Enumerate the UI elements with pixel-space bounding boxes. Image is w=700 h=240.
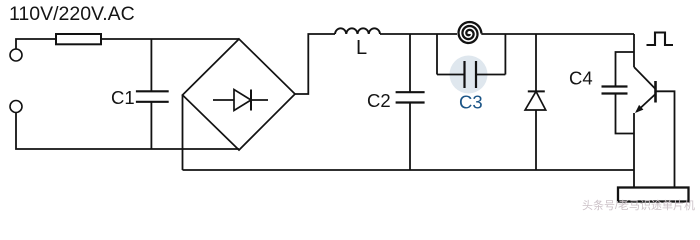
spiral inductor (saturable coil) on top rail: [459, 22, 482, 43]
capacitor C3 plates: [463, 61, 465, 88]
C3 right connector: [476, 74, 505, 76]
wire bottom DC rail: [183, 169, 635, 171]
capacitor C2 bottom lead: [409, 103, 411, 171]
capacitor C4 top tee wire: [616, 52, 635, 87]
diode D1 cathode bar: [528, 90, 545, 92]
transistor Q1 base lead: [656, 91, 675, 187]
wire inductor to spiral: [380, 33, 457, 35]
svg-text:头条号/老马识途单片机: 头条号/老马识途单片机: [582, 198, 695, 212]
inductor L1: [335, 28, 380, 34]
capacitor C2 plates: [396, 91, 425, 93]
C3 right stub: [504, 34, 506, 75]
diode D1 bottom lead: [535, 110, 537, 170]
wire DC minus: bridge left vertex down: [182, 95, 184, 171]
bridge rectifier BR1 (diamond): [183, 39, 296, 150]
diode D1 triangle: [525, 91, 546, 110]
fuse F1 (rectangle): [56, 34, 101, 44]
svg-text:C2: C2: [367, 90, 391, 111]
capacitor C1 plates: [136, 90, 169, 92]
svg-text:L: L: [356, 37, 367, 59]
C3 left stub: [436, 34, 438, 75]
capacitor C2 top lead: [409, 34, 411, 92]
wire spiral to right: [481, 33, 634, 35]
wire fuse to bridge top vertex: [101, 38, 239, 40]
transistor Q1 collector diagonal: [634, 67, 656, 89]
bridge diode cathode bar: [250, 90, 252, 111]
svg-text:C1: C1: [111, 87, 135, 108]
terminal P2 (line input lower): [10, 101, 22, 113]
bridge diode symbol anode line: [213, 99, 234, 101]
transistor Q1 collector wire from top rail: [633, 34, 635, 67]
diode D1 top lead: [535, 34, 537, 91]
wire terminal P2 down to bottom AC rail: [16, 113, 239, 150]
capacitor C4 plates: [602, 85, 628, 87]
ground plate (mounting box): [618, 188, 689, 202]
bridge diode triangle: [234, 90, 251, 111]
transistor Q1 emitter wire down: [633, 113, 635, 188]
capacitor C1 top lead: [150, 39, 152, 91]
C3 left connector: [437, 74, 465, 76]
transistor Q1 base bar: [654, 81, 657, 103]
svg-text:110V/220V.AC: 110V/220V.AC: [9, 3, 135, 25]
svg-text:C4: C4: [569, 68, 593, 89]
pulse drive signal symbol: [647, 33, 674, 46]
wire terminal P1 to fuse: [16, 39, 56, 49]
transistor Q1 emitter arrow: [635, 105, 643, 113]
bridge diode cathode line: [251, 99, 268, 101]
transistor Q1 emitter diagonal: [637, 94, 656, 112]
svg-text:C3: C3: [459, 92, 483, 113]
terminal P1 (line input upper): [10, 49, 22, 61]
highlight circle behind C3: [450, 56, 488, 94]
capacitor C4 bottom lead: [616, 94, 635, 134]
wire DC plus: bridge right vertex up to top rail: [295, 34, 335, 94]
capacitor C1 bottom lead: [150, 102, 152, 149]
